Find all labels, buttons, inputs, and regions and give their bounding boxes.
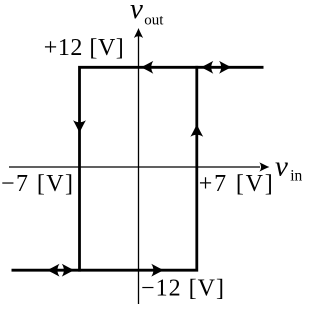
y-axis v_out [134,28,143,304]
svg-text:+12 [V]: +12 [V] [44,35,124,61]
svg-text:+7 [V]: +7 [V] [199,171,273,197]
arrowhead pair (right) on bottom segment left of corner [62,264,75,277]
svg-text:in: in [290,168,302,185]
arrowhead pair (left) on top segment right of corner [200,61,213,74]
arrowhead up on right edge [190,124,203,137]
svg-text:v: v [275,151,288,183]
arrowhead left on top segment near y-axis [140,61,153,74]
arrowhead right on bottom segment right of y-axis [151,264,164,277]
svg-text:v: v [130,0,143,25]
hysteresis loop: bottom segment and right edge [12,66,197,270]
svg-text:−7 [V]: −7 [V] [1,171,73,197]
arrowhead pair (right) on top segment right of corner [219,61,232,74]
x-axis v_in [9,162,269,171]
hysteresis loop: top segment and left edge [80,67,264,271]
svg-text:out: out [144,13,164,29]
svg-text:−12 [V]: −12 [V] [141,276,224,302]
arrowhead down on left edge [73,120,86,133]
arrowhead pair (left) on bottom segment left of corner [47,264,60,277]
